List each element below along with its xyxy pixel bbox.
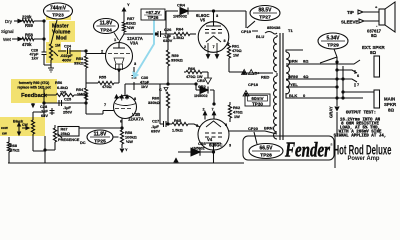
svg-text:6: 6 [357,74,359,78]
svg-text:470Ω: 470Ω [102,84,112,89]
svg-text:63V: 63V [41,113,48,118]
svg-text:8: 8 [224,39,226,43]
svg-text:GRAY: GRAY [329,106,334,118]
svg-text:1M: 1M [55,44,60,48]
svg-text:2: 2 [203,108,205,112]
svg-text:BRN: BRN [264,126,273,131]
svg-text:630V: 630V [151,129,160,134]
svg-text:88.5V: 88.5V [258,8,272,14]
svg-text:BLK: BLK [289,93,297,98]
svg-text:6: 6 [120,120,122,124]
svg-text:C: C [159,87,162,92]
svg-text:3: 3 [229,144,231,148]
svg-text:1W: 1W [233,53,239,58]
svg-text:2: 2 [204,45,206,49]
svg-text:CR4: CR4 [177,3,186,8]
svg-text:Feedback: Feedback [21,93,48,99]
svg-text:5: 5 [196,124,198,128]
svg-text:GRN/: GRN/ [288,74,299,79]
svg-text:Wet: Wet [3,37,12,42]
svg-text:TP29: TP29 [327,42,339,48]
svg-text:5.34V: 5.34V [326,36,340,42]
svg-text:V5: V5 [200,18,206,23]
svg-text:MAIN: MAIN [384,97,395,102]
svg-text:TP28: TP28 [260,152,272,158]
svg-text:OUTPUT TEST:: OUTPUT TEST: [346,112,376,116]
svg-text:66.5V: 66.5V [259,146,273,152]
svg-text:R68: R68 [10,144,17,148]
svg-text:630V: 630V [163,38,173,43]
svg-text:400V: 400V [62,58,72,63]
svg-text:TP26: TP26 [148,15,159,20]
svg-text:2: 2 [245,93,247,97]
svg-text:8Ω: 8Ω [370,50,376,55]
svg-text:330kΩ: 330kΩ [171,58,183,63]
svg-text:SIGNAL APPLIED AT J4,: SIGNAL APPLIED AT J4, [334,134,387,138]
svg-text:1.5kΩ: 1.5kΩ [173,35,185,40]
svg-text:1kV: 1kV [32,57,39,61]
svg-text:Y: Y [127,2,130,7]
svg-text:SLEEVE: SLEEVE [341,20,358,25]
svg-text:Fender: Fender [284,138,330,162]
svg-text:7: 7 [213,45,215,49]
svg-text:CP19: CP19 [241,29,252,34]
svg-text:25kΩ: 25kΩ [61,132,70,136]
svg-text:V4: V4 [207,137,213,142]
svg-text:½W: ½W [127,25,134,30]
svg-text:7: 7 [212,108,214,112]
svg-text:11.8V: 11.8V [94,132,107,138]
svg-text:TP25: TP25 [94,138,106,144]
svg-text:replace with 1kΩ pot: replace with 1kΩ pot [17,86,51,90]
svg-text:ccw: ccw [1,126,8,130]
svg-text:R55: R55 [99,75,107,80]
svg-text:12AX7A: 12AX7A [128,117,144,122]
svg-text:7: 7 [104,103,106,107]
svg-text:Mod: Mod [56,36,67,42]
svg-text:TIP: TIP [347,10,354,15]
svg-text:4Ω: 4Ω [303,74,309,79]
svg-text:8Ω: 8Ω [303,59,309,64]
svg-text:YEL: YEL [290,82,298,87]
svg-text:TP27: TP27 [259,14,271,20]
svg-text:B+: B+ [255,71,261,76]
svg-text:CR3: CR3 [197,78,206,83]
svg-text:1.5kΩ: 1.5kΩ [172,128,183,133]
svg-text:1N5002: 1N5002 [194,93,208,98]
svg-text:1N5002: 1N5002 [173,14,188,19]
svg-text:BRN: BRN [289,59,298,64]
svg-text:Signal: Signal [1,29,14,34]
svg-text:CP18: CP18 [248,82,259,87]
svg-text:T1: T1 [288,28,293,33]
svg-text:11.8V: 11.8V [100,21,113,27]
svg-text:R59: R59 [25,23,33,28]
svg-text:2: 2 [243,71,245,75]
svg-text:C24: C24 [64,45,72,49]
svg-text:850438: 850438 [267,25,281,30]
svg-text:330kΩ: 330kΩ [148,100,160,105]
svg-text:1kV: 1kV [141,84,148,89]
svg-text:TP24: TP24 [100,27,112,33]
svg-text:CP20: CP20 [248,126,259,131]
svg-text:CR2: CR2 [198,84,207,89]
svg-text:RED: RED [261,75,270,80]
svg-text:6L6GC: 6L6GC [209,143,223,148]
svg-text:8: 8 [225,123,227,127]
svg-text:Dry: Dry [5,19,13,24]
svg-text:C26: C26 [164,27,172,32]
svg-text:744mV: 744mV [50,6,67,12]
svg-text:8Ω: 8Ω [371,33,377,38]
svg-text:CR5: CR5 [198,141,207,146]
svg-text:1W: 1W [234,114,240,119]
svg-text:R66: R66 [188,66,196,71]
svg-text:33kΩ: 33kΩ [74,61,84,66]
svg-text:cw: cw [2,132,7,136]
svg-text:TP23: TP23 [52,12,64,18]
svg-text:7: 7 [357,83,359,87]
svg-text:R58: R58 [25,33,33,38]
svg-text:220k: 220k [22,15,32,20]
svg-text:1N5002: 1N5002 [192,147,205,151]
svg-text:47kΩ: 47kΩ [10,149,19,153]
svg-text:R65: R65 [174,118,182,123]
svg-text:R64: R64 [176,27,184,32]
svg-text:60mV: 60mV [251,96,264,101]
svg-text:SPKR: SPKR [384,102,397,107]
svg-text:½W: ½W [126,139,133,144]
svg-text:1W: 1W [60,89,66,94]
svg-text:1MΩ: 1MΩ [77,92,86,97]
svg-text:TP30: TP30 [252,101,263,106]
svg-text:BLU: BLU [256,34,264,39]
svg-text:C25: C25 [64,97,72,102]
svg-text:Y: Y [125,147,128,152]
svg-text:PRESENCE: PRESENCE [58,137,80,142]
svg-text:Power Amp: Power Amp [348,155,380,162]
svg-text:C27: C27 [152,119,159,124]
svg-text:250V: 250V [63,110,72,115]
svg-text:V3A: V3A [130,41,138,46]
svg-text:8: 8 [134,97,136,101]
svg-text:formerly R60 (47Ω): formerly R60 (47Ω) [19,81,49,85]
svg-text:DC: DC [80,140,86,145]
svg-text:8Ω: 8Ω [388,108,394,113]
svg-text:CW: CW [22,123,28,127]
svg-text:470k: 470k [22,42,32,47]
